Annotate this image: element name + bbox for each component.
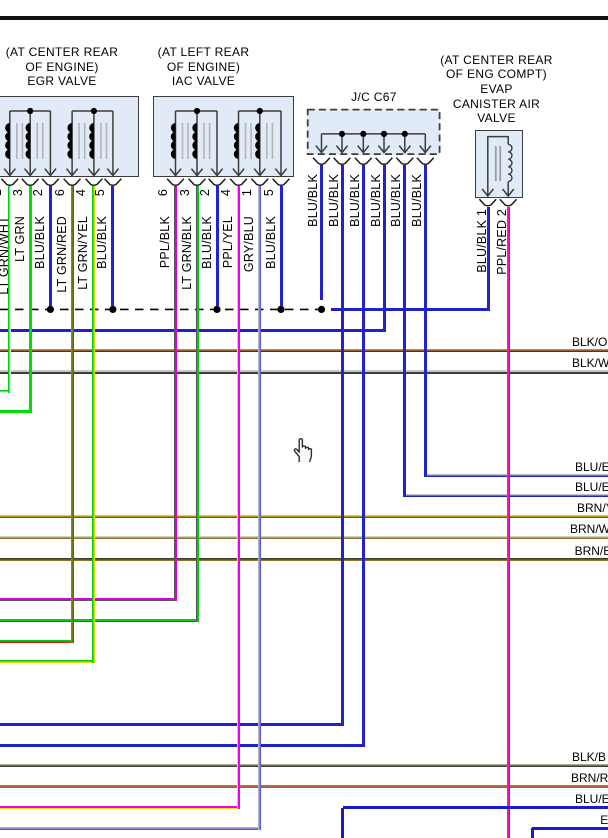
wire LT GRN/RED run to left edge (horizontal) bbox=[0, 640, 74, 643]
wire LT GRN run to left edge (horizontal) bbox=[0, 410, 32, 413]
J/C C67 connector terminal 1 bbox=[313, 158, 330, 165]
pin 3 bbox=[178, 189, 191, 196]
label BLK/W bbox=[572, 356, 608, 371]
pin 1 bbox=[0, 189, 3, 196]
wire LT GRN/YEL run to left edge (horizontal) bbox=[0, 660, 95, 663]
mouse hand cursor bbox=[292, 436, 314, 464]
wire BRN/Y bus (horizontal) bbox=[0, 515, 608, 518]
wire label GRY/BLU bbox=[242, 216, 256, 272]
label BRN/R bbox=[571, 771, 608, 786]
J/C C67 arrow wire 4 bbox=[383, 134, 385, 153]
pin 5 bbox=[262, 189, 275, 196]
connector terminal EGR pin 5 bbox=[105, 179, 122, 186]
wire BLU/E bus upper (horizontal) bbox=[425, 474, 608, 477]
connector terminal IAC pin 6 bbox=[167, 179, 184, 186]
wire BLU/BLK IAC pin5 (vertical) bbox=[280, 186, 283, 307]
header text IAC VALVE header bbox=[104, 45, 304, 89]
wire BRN/W bus (horizontal) bbox=[0, 536, 608, 539]
pin 1 bbox=[240, 189, 253, 196]
wire PPL/BLK run to left edge (horizontal) bbox=[0, 598, 177, 601]
wire label BLU/BLK 1 bbox=[475, 209, 489, 273]
label BLK/B bbox=[572, 750, 606, 765]
EVAP canister air valve box bbox=[475, 130, 523, 198]
connector terminal IAC pin 1 bbox=[251, 179, 268, 186]
label BRN/Y bbox=[577, 501, 608, 516]
wire BLU/BLK EGR pin5 (vertical) bbox=[111, 186, 114, 307]
wire LT GRN EGR pin3 (vertical) bbox=[29, 186, 32, 414]
header text EGR VALVE header bbox=[0, 45, 162, 89]
wire GRY/BLU IAC pin1 (vertical) bbox=[258, 186, 261, 830]
wire BLU/BLK J/C wire2 (vertical) bbox=[341, 165, 344, 726]
connector terminal EGR pin 2 bbox=[42, 179, 59, 186]
J/C C67 arrow wire 5 bbox=[404, 134, 406, 153]
J/C C67 junction dot 4 bbox=[381, 131, 387, 137]
J/C C67 junction dot 2 bbox=[339, 131, 345, 137]
pin 5 bbox=[93, 189, 106, 196]
wire BLU/BLK J/C wire5 (vertical) bbox=[403, 165, 406, 498]
wire BLK/O bus (horizontal) bbox=[0, 349, 608, 352]
wire label BLU/BLK bbox=[389, 174, 403, 227]
wire BLU/BLK J/C wire3 run to left edge (horizontal) bbox=[0, 744, 365, 747]
wire label BLU/BLK bbox=[33, 216, 47, 269]
IAC coil unit 2 (pins 4/1/5) bbox=[233, 108, 287, 176]
pin 2 bbox=[198, 189, 211, 196]
J/C C67 junction dot 5 bbox=[402, 131, 408, 137]
connector terminal EGR pin 3 bbox=[22, 179, 39, 186]
wire BLU/BLK EGR pin2 (vertical) bbox=[49, 186, 52, 307]
dashed splice bus wire bbox=[0, 308, 322, 310]
wire BLU/BLK J/C wire4 run to left edge (horizontal) bbox=[0, 329, 386, 332]
connector terminal EGR pin 1 bbox=[1, 179, 18, 186]
J/C C67 junction dot 3 bbox=[360, 131, 366, 137]
wire BLU/BLK J/C wire6 (vertical) bbox=[424, 165, 427, 478]
label BLU/E bbox=[575, 480, 608, 495]
wire blue bus bottom-right (label E) (horizontal) bbox=[532, 827, 608, 830]
wire BLU/BLK IAC pin2 (vertical) bbox=[216, 186, 219, 307]
top border bar bbox=[0, 16, 608, 20]
J/C C67 internal bus wire bbox=[322, 133, 426, 135]
EVAP valve solenoid coil bbox=[488, 137, 508, 196]
EVAP connector terminal pin 2 bbox=[500, 199, 517, 206]
wire label BLU/BLK bbox=[369, 174, 383, 227]
EVAP connector terminal pin 1 bbox=[479, 199, 496, 206]
J/C C67 connector terminal 3 bbox=[355, 158, 372, 165]
wire LT GRN/BLK IAC pin3 (vertical) bbox=[196, 186, 199, 623]
wire label BLU/BLK bbox=[327, 174, 341, 227]
label J/C C67 bbox=[324, 90, 424, 105]
wire LT GRN/YEL EGR pin4 (vertical) bbox=[92, 186, 95, 664]
IAC coil unit 1 (pins 6/3/2) bbox=[170, 108, 223, 176]
EGR valve connector box bbox=[0, 96, 139, 177]
wire BLK/B bus (horizontal) bbox=[0, 764, 608, 767]
wire BLU/BLK J/C wire1 to splice (vertical) bbox=[320, 165, 323, 300]
wire GRY/BLU run to left edge (horizontal) bbox=[0, 827, 261, 830]
connector terminal EGR pin 6 bbox=[64, 179, 81, 186]
wire label PPL/RED 2 bbox=[495, 209, 509, 275]
label BLU/E bbox=[575, 460, 608, 475]
wire PPL/BLK IAC pin6 (vertical) bbox=[174, 186, 177, 602]
pin 4 bbox=[219, 189, 232, 196]
wire label BLU/BLK bbox=[200, 216, 214, 269]
connector terminal IAC pin 3 bbox=[189, 179, 206, 186]
connector terminal IAC pin 5 bbox=[273, 179, 290, 186]
wire BRN/B bus (horizontal) bbox=[0, 558, 608, 561]
wire LT GRN/RED EGR pin6 (vertical) bbox=[71, 186, 74, 644]
wire label BLU/BLK bbox=[264, 216, 278, 269]
wire label LT GRN bbox=[13, 216, 27, 262]
connector terminal EGR pin 4 bbox=[86, 179, 103, 186]
wire PPL/YEL IAC pin4 (vertical) bbox=[237, 186, 240, 810]
wire label BLU/BLK bbox=[95, 216, 109, 269]
splice junction dot at EGR pin5 bbox=[109, 306, 116, 313]
pin 6 bbox=[156, 189, 169, 196]
wire label LT GRN/YEL bbox=[76, 216, 90, 290]
wire label PPL/BLK bbox=[158, 216, 172, 268]
J/C C67 connector terminal 2 bbox=[334, 158, 351, 165]
wire PPL/YEL run to left edge (horizontal) bbox=[0, 806, 240, 809]
label BRN/B bbox=[575, 544, 608, 559]
J/C C67 arrow wire 6 bbox=[424, 134, 426, 153]
wire BLK/W bus (horizontal) bbox=[0, 370, 608, 373]
label E bbox=[600, 813, 608, 828]
wire BLU/E bus bottom drop to edge (vertical) bbox=[341, 808, 344, 838]
label BRN/W bbox=[570, 522, 608, 537]
connector terminal IAC pin 4 bbox=[230, 179, 247, 186]
wire LT GRN/BLK run to left edge (horizontal) bbox=[0, 619, 199, 622]
wire BLU/BLK J/C wire2 run to left edge (horizontal) bbox=[0, 723, 344, 726]
pin 4 bbox=[74, 189, 87, 196]
wire BLU/E bus bottom (horizontal) bbox=[343, 806, 608, 809]
splice junction dot at J/C wire1 bbox=[318, 306, 325, 313]
pin 3 bbox=[11, 189, 24, 196]
wire label BLU/BLK bbox=[410, 174, 424, 227]
wire label PPL/YEL bbox=[221, 216, 235, 268]
wire label LT GRN/BLK bbox=[180, 216, 194, 290]
wire BLU/BLK J/C wire4 (vertical) bbox=[383, 165, 386, 332]
IAC valve connector box bbox=[153, 96, 294, 177]
J/C C67 connector terminal 4 bbox=[376, 158, 393, 165]
wire BRN/R bus (horizontal) bbox=[0, 785, 608, 788]
wire label LT GRN/RED bbox=[55, 216, 69, 293]
connector terminal IAC pin 2 bbox=[209, 179, 226, 186]
EGR coil unit 1 (pins 1/3/2) bbox=[4, 108, 56, 176]
splice junction dot at EGR pin2 bbox=[47, 306, 54, 313]
J/C C67 arrow wire 2 bbox=[341, 134, 343, 153]
pin 6 bbox=[53, 189, 66, 196]
label BLU/E bbox=[575, 792, 608, 807]
wire BLU/BLK J/C wire3 (vertical) bbox=[362, 165, 365, 747]
splice junction dot at IAC pin2 bbox=[213, 306, 220, 313]
pin 2 bbox=[31, 189, 44, 196]
wire label LT GRN/WHT bbox=[0, 216, 11, 295]
wire PPL/RED EVAP pin2 (vertical) bbox=[507, 207, 510, 838]
wire BLU/BLK EVAP pin1 run to splice (horizontal) bbox=[331, 308, 490, 311]
label BLK/O bbox=[572, 335, 607, 350]
J/C C67 connector terminal 6 bbox=[417, 158, 434, 165]
header text EVAP header bbox=[397, 53, 597, 127]
wire label BLU/BLK bbox=[306, 174, 320, 227]
wire BLU/BLK EVAP pin1 (vertical) bbox=[487, 207, 490, 311]
wire BLU/E bus lower (horizontal) bbox=[405, 494, 608, 497]
splice junction dot at IAC pin5 bbox=[277, 306, 284, 313]
J/C C67 arrow wire 1 bbox=[321, 134, 323, 153]
wire LT GRN/WHT run to left edge (horizontal) bbox=[0, 390, 11, 393]
J/C C67 connector terminal 5 bbox=[396, 158, 413, 165]
J/C C67 junction box (dashed) bbox=[307, 109, 441, 155]
wire label BLU/BLK bbox=[348, 174, 362, 227]
EGR coil unit 2 (pins 6/4/5) bbox=[67, 108, 119, 176]
wire LT GRN/WHT EGR pin1 (vertical) bbox=[8, 186, 11, 394]
wire blue bus bottom-right drop to edge (vertical) bbox=[531, 828, 534, 838]
J/C C67 arrow wire 3 bbox=[362, 134, 364, 153]
